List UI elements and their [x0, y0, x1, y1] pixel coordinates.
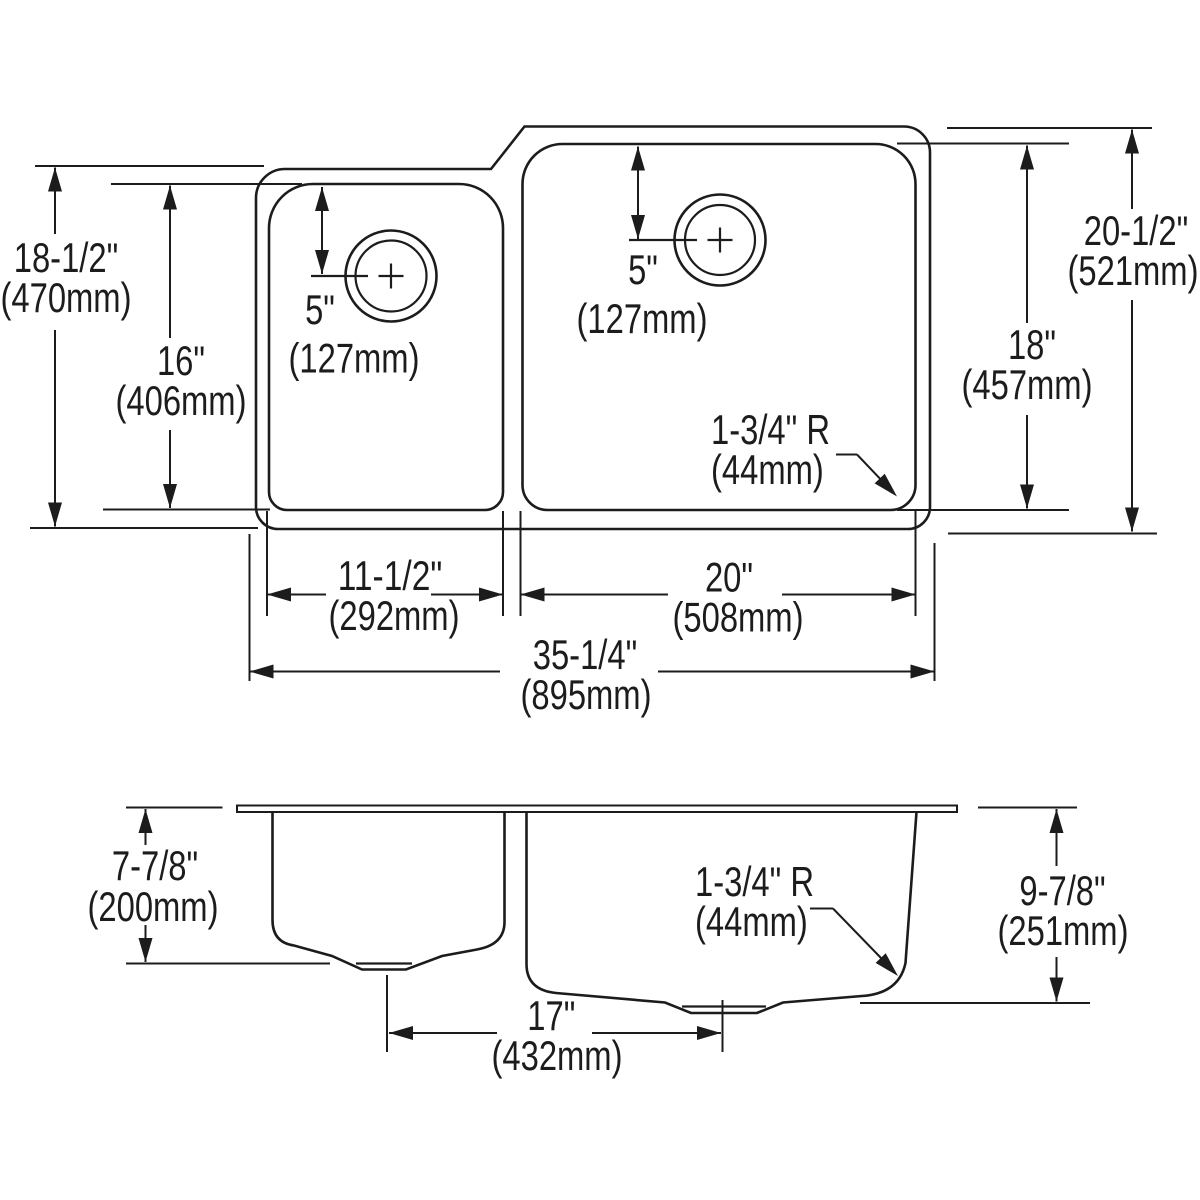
dimension line 20	[521, 588, 916, 602]
radius callout leader (side)	[810, 909, 898, 977]
dimension text 35-1/4	[533, 631, 638, 678]
svg-text:(127mm): (127mm)	[577, 295, 708, 342]
dimension text 18	[1008, 321, 1056, 368]
large bowl drain outer circle	[675, 195, 766, 286]
dimension text (457mm)	[962, 361, 1093, 408]
extension line below large bowl left (20)	[520, 511, 522, 616]
dimension text 5in large	[628, 246, 658, 293]
svg-text:(44mm): (44mm)	[711, 446, 824, 493]
dimension text (406mm)	[116, 377, 247, 424]
dimension arrow 7-7/8	[139, 809, 153, 962]
radius callout leader (plan)	[836, 455, 897, 497]
dimension text 11-1/2	[338, 552, 443, 599]
dimension arrow 5in small bowl	[315, 187, 329, 274]
small bowl (top view)	[269, 184, 503, 510]
large bowl drain leader line	[629, 239, 697, 241]
dimension line 17	[389, 1026, 721, 1040]
dimension arrow 9-7/8	[1050, 809, 1064, 1002]
large bowl profile (side view)	[527, 812, 917, 1013]
dimension arrow 5in large bowl	[631, 147, 645, 240]
small bowl drain center cross	[379, 264, 404, 289]
svg-text:(508mm): (508mm)	[673, 594, 804, 641]
extension line below small bowl right (11-1/2)	[502, 511, 504, 616]
dimension text (521mm)	[1068, 247, 1199, 294]
extension line 35-1/4 left	[249, 534, 251, 681]
extension line top (20-1/2 dim)	[947, 127, 1152, 129]
extension line top (18-1/2 dim)	[35, 165, 264, 167]
extension line side top-left (7-7/8)	[126, 807, 223, 809]
dimension text 5in small	[305, 286, 335, 333]
large bowl drain inner circle	[685, 205, 755, 275]
extension line 35-1/4 right	[934, 543, 936, 681]
dimension text (200mm)	[88, 883, 219, 930]
dimension line 11-1/2	[267, 588, 503, 602]
small bowl drain recess line (side view)	[356, 962, 412, 964]
svg-text:(521mm): (521mm)	[1068, 247, 1199, 294]
dimension text 16	[157, 337, 205, 384]
dimension text 7-7/8	[112, 842, 198, 889]
svg-text:7-7/8": 7-7/8"	[112, 842, 198, 889]
svg-text:(127mm): (127mm)	[289, 335, 420, 382]
svg-text:(406mm): (406mm)	[116, 377, 247, 424]
dimension text (251mm)	[998, 907, 1129, 954]
extension line below large bowl right (20)	[915, 511, 917, 616]
svg-text:(457mm): (457mm)	[962, 361, 1093, 408]
dimension text 17	[527, 992, 575, 1039]
small bowl drain inner circle	[356, 241, 427, 312]
svg-text:5": 5"	[628, 246, 658, 293]
svg-text:(200mm): (200mm)	[88, 883, 219, 930]
radius callout text 1-3/4 R (side)	[695, 858, 814, 945]
extension line below small bowl left (11-1/2)	[266, 511, 268, 616]
extension line side bottom-left (7-7/8)	[126, 963, 330, 965]
small bowl drain leader line	[311, 275, 368, 277]
extension line side bottom-right (9-7/8)	[860, 1002, 1090, 1004]
svg-text:(44mm): (44mm)	[695, 898, 808, 945]
extension line bottom (16 dim)	[103, 509, 270, 511]
dimension line 35-1/4	[250, 665, 935, 679]
dimension arrow 18 vertical	[1020, 146, 1034, 509]
svg-text:5": 5"	[305, 286, 335, 333]
extension line side top-right (9-7/8)	[978, 807, 1077, 809]
dimension text 9-7/8	[1019, 867, 1105, 914]
dimension text 20-1/2	[1084, 207, 1189, 254]
dimension text (127mm) small	[289, 335, 420, 382]
extension line large drain (17)	[722, 1000, 724, 1052]
svg-text:(895mm): (895mm)	[521, 671, 652, 718]
svg-text:(251mm): (251mm)	[998, 907, 1129, 954]
large bowl drain recess line (side view)	[682, 1005, 766, 1007]
radius callout text 1-3/4 R (plan)	[711, 406, 830, 493]
sink rim bar (side view)	[237, 806, 957, 813]
large bowl (top view)	[523, 144, 916, 510]
dimension arrow 20-1/2 vertical	[1125, 130, 1139, 532]
dimension text (895mm)	[521, 671, 652, 718]
dimension text (508mm)	[673, 594, 804, 641]
extension line bottom (18-1/2 dim)	[30, 527, 258, 529]
dimension arrow 18-1/2 vertical	[48, 168, 62, 527]
sink rim outline (top view)	[256, 127, 930, 530]
extension line bottom (18 dim)	[897, 509, 1069, 511]
extension line top (16 dim)	[111, 183, 302, 185]
svg-text:(432mm): (432mm)	[492, 1032, 623, 1079]
dimension text 18-1/2	[14, 234, 119, 281]
small bowl profile (side view)	[273, 812, 505, 970]
small bowl drain outer circle	[346, 231, 437, 322]
svg-text:(470mm): (470mm)	[1, 274, 132, 321]
extension line bottom (20-1/2 dim)	[948, 533, 1157, 535]
large bowl drain center cross	[708, 228, 733, 253]
dimension text (127mm) large	[577, 295, 708, 342]
svg-text:(292mm): (292mm)	[329, 592, 460, 639]
dimension text (292mm)	[329, 592, 460, 639]
dimension text 20	[705, 554, 753, 601]
dimension arrow 16 vertical	[163, 186, 177, 509]
dimension text (432mm)	[492, 1032, 623, 1079]
dimension text (470mm)	[1, 274, 132, 321]
extension line top (18 dim)	[897, 143, 1069, 145]
extension line small drain (17)	[386, 975, 388, 1052]
